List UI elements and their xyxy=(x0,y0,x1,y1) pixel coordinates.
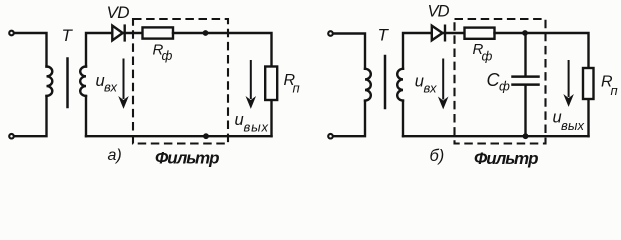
arrow u_вх (а) xyxy=(119,59,127,108)
wire R_ф to right corner (б) xyxy=(495,33,589,68)
svg-text:VD: VD xyxy=(107,3,130,22)
filter dashed box (а) xyxy=(133,19,228,144)
diode VD (б) xyxy=(432,26,443,41)
svg-text:VD: VD xyxy=(428,3,450,21)
terminal input bottom (circuit б) xyxy=(328,134,333,139)
capacitor C_ф plates (б) xyxy=(513,77,539,85)
diode VD cathode bar (б) xyxy=(444,26,446,41)
svg-text:T: T xyxy=(62,26,74,45)
svg-text:б): б) xyxy=(430,147,445,165)
wire secondary bottom (б) xyxy=(402,101,404,137)
arrow u_вых (б) xyxy=(565,60,573,106)
transformer T secondary winding (б) xyxy=(397,69,403,101)
terminal input top (circuit а) xyxy=(9,31,14,36)
label С_ф (б) xyxy=(487,70,511,94)
transformer T primary winding (б) xyxy=(365,69,371,101)
svg-text:Фильтр: Фильтр xyxy=(155,149,220,168)
wire diode to R_ф (а) xyxy=(123,32,143,34)
svg-text:вх: вх xyxy=(104,80,118,95)
diode VD cathode bar (а) xyxy=(123,26,125,41)
terminal input top (circuit б) xyxy=(328,31,333,36)
wire right side lower (б) xyxy=(587,99,589,136)
wire secondary bottom (а) xyxy=(85,96,87,136)
label u_вх (а) xyxy=(96,72,118,95)
svg-text:вых: вых xyxy=(561,118,585,133)
svg-text:п: п xyxy=(611,83,618,98)
arrow u_вых (а) xyxy=(247,60,255,108)
svg-text:ф: ф xyxy=(162,48,173,63)
svg-text:Фильтр: Фильтр xyxy=(474,149,539,168)
arrow u_вх (б) xyxy=(439,59,447,109)
wire right side lower (а) xyxy=(270,100,272,136)
label R_п (б) xyxy=(601,74,618,99)
transformer T core (а) xyxy=(66,59,69,108)
wire diode to R_ф (б) xyxy=(443,32,465,34)
wire bottom (а) xyxy=(86,135,272,137)
label R_ф (а) xyxy=(153,42,173,64)
wire secondary top (а) xyxy=(86,33,112,67)
junction dot bottom (а) xyxy=(203,133,209,139)
wire secondary top (б) xyxy=(403,33,432,69)
terminal input bottom (circuit а) xyxy=(9,134,14,139)
wire primary bottom (б) xyxy=(333,101,365,136)
capacitor C_ф bottom lead (б) xyxy=(524,86,526,136)
capacitor C_ф top lead (б) xyxy=(524,33,526,75)
svg-text:u: u xyxy=(235,111,244,129)
wire primary top (а) xyxy=(14,33,46,67)
resistor R_п (б) xyxy=(583,68,594,99)
svg-text:вх: вх xyxy=(424,81,438,96)
diode VD (а) xyxy=(112,26,122,41)
wire primary top (б) xyxy=(333,34,365,69)
label u_вых (б) xyxy=(553,109,585,134)
transformer T core (б) xyxy=(384,56,387,108)
svg-text:T: T xyxy=(378,26,390,45)
junction dot top (а) xyxy=(203,30,209,36)
label u_вых (а) xyxy=(235,111,269,135)
label u_вх (б) xyxy=(415,73,437,96)
svg-text:п: п xyxy=(293,81,300,96)
transformer T secondary winding (а) xyxy=(80,67,86,96)
label R_ф (б) xyxy=(473,41,493,64)
wire primary bottom (а) xyxy=(14,96,46,136)
junction dot bottom (б) xyxy=(523,133,529,139)
resistor R_ф (б) xyxy=(465,28,495,39)
label R_п (а) xyxy=(284,72,300,96)
junction dot top (б) xyxy=(522,30,528,36)
filter dashed box (б) xyxy=(455,19,546,144)
resistor R_ф (а) xyxy=(143,27,174,38)
wire bottom (б) xyxy=(403,135,589,137)
svg-text:ф: ф xyxy=(482,49,493,64)
svg-text:ф: ф xyxy=(499,79,510,94)
transformer T primary winding (а) xyxy=(47,67,53,96)
svg-text:а): а) xyxy=(108,147,122,164)
svg-text:вых: вых xyxy=(244,120,269,135)
resistor R_п (а) xyxy=(265,67,277,101)
wire R_ф to right corner (а) xyxy=(173,33,272,67)
